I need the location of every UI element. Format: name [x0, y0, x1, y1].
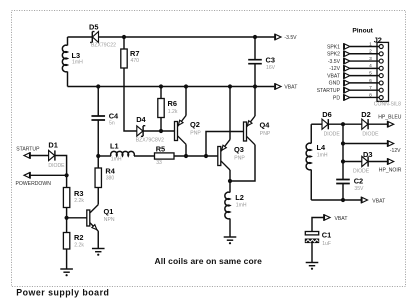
- svg-text:Power supply board: Power supply board: [16, 287, 109, 297]
- junction D3 tap: [341, 159, 345, 163]
- svg-text:VBAT: VBAT: [327, 73, 340, 79]
- wire L1 to R5: [134, 155, 155, 157]
- svg-text:-12V: -12V: [329, 66, 340, 72]
- inductor L3: [62, 37, 83, 87]
- diode D1: [48, 140, 65, 169]
- junction C3 / -3.5V rail: [253, 35, 257, 39]
- resistor R6: [158, 87, 178, 132]
- svg-text:PD: PD: [333, 95, 340, 101]
- inductor L4: [306, 124, 328, 200]
- svg-text:380: 380: [106, 175, 115, 181]
- wire D5 to -3.5V flag, node -3.5V: [98, 36, 274, 38]
- svg-text:-12V: -12V: [390, 148, 401, 154]
- svg-text:4: 4: [369, 63, 372, 69]
- svg-text:HP_BLEU: HP_BLEU: [378, 114, 402, 120]
- svg-text:D2: D2: [361, 110, 370, 119]
- pin 8 PD: [333, 92, 383, 101]
- svg-text:Q2: Q2: [190, 120, 200, 129]
- svg-text:R5: R5: [156, 144, 165, 153]
- diode D2: [361, 110, 379, 137]
- flag -12V: [388, 140, 402, 154]
- diode D6: [322, 110, 340, 137]
- svg-text:DIODE: DIODE: [353, 168, 370, 174]
- flag POWERDOWN: [16, 172, 52, 187]
- resistor R3: [63, 188, 84, 233]
- svg-text:35V: 35V: [354, 186, 364, 192]
- junction Q4 emitter / VBAT rail: [253, 84, 257, 88]
- junction Q3 emitter / VBAT rail: [228, 84, 232, 88]
- svg-text:C2: C2: [354, 176, 363, 185]
- svg-text:HP_NOIR: HP_NOIR: [379, 167, 402, 173]
- flag VBAT (C1): [324, 214, 348, 222]
- svg-text:R6: R6: [168, 99, 177, 108]
- wire R3/R2 node to Q1 base: [67, 217, 87, 219]
- svg-text:3: 3: [369, 56, 372, 62]
- svg-text:PNP: PNP: [260, 131, 271, 137]
- flag VBAT (right): [361, 197, 385, 205]
- svg-text:STARTUP: STARTUP: [317, 88, 341, 94]
- junction C4/L1/R4 node: [96, 154, 100, 158]
- svg-text:SPK1: SPK1: [327, 44, 340, 50]
- svg-text:-3.5V: -3.5V: [328, 59, 341, 65]
- flag STARTUP: [16, 146, 40, 159]
- zener diode D5: [89, 23, 116, 49]
- svg-text:R2: R2: [74, 233, 83, 242]
- svg-text:R3: R3: [74, 189, 83, 198]
- svg-text:33: 33: [156, 160, 162, 166]
- capacitor C1 (polarized): [305, 231, 331, 247]
- svg-text:SPK2: SPK2: [327, 52, 340, 58]
- svg-text:5: 5: [369, 71, 372, 77]
- resistor R5: [155, 144, 175, 166]
- svg-text:8: 8: [369, 92, 372, 98]
- svg-text:1mH: 1mH: [72, 60, 83, 66]
- svg-text:VBAT: VBAT: [284, 84, 297, 90]
- connector J2 CONN-SIL8: [374, 35, 401, 107]
- wire C1 to ground: [311, 243, 313, 263]
- svg-text:5n: 5n: [109, 120, 115, 126]
- capacitor C3: [248, 37, 275, 87]
- transistor Q3 PNP: [218, 87, 246, 182]
- pin 6 GND: [329, 78, 384, 87]
- pin 1 SPK1: [327, 41, 383, 50]
- svg-text:PNP: PNP: [234, 155, 245, 161]
- junction C2 / VBAT wire: [341, 198, 345, 202]
- pin 3 -3.5V: [328, 56, 383, 65]
- svg-text:R7: R7: [130, 49, 139, 58]
- svg-text:PNP: PNP: [190, 130, 201, 136]
- wire D4 to Q2 base: [143, 130, 174, 132]
- junction C4 / VBAT rail: [96, 84, 100, 88]
- ground (C1): [306, 263, 319, 270]
- svg-text:R4: R4: [105, 166, 115, 175]
- junction Q3/Q4 collectors / L2: [228, 179, 232, 183]
- pin 4 -12V: [329, 63, 383, 72]
- svg-text:DIODE: DIODE: [324, 132, 341, 138]
- junction Q1 base node: [65, 216, 69, 220]
- resistor R4: [95, 156, 116, 188]
- inductor L1: [110, 141, 134, 162]
- svg-text:16V: 16V: [266, 65, 276, 71]
- wire R5 to Q3 base: [174, 155, 218, 157]
- svg-text:NPN: NPN: [104, 217, 115, 223]
- wire node to Q4 base: [206, 132, 244, 157]
- svg-text:6: 6: [369, 78, 372, 84]
- svg-text:DIODE: DIODE: [362, 132, 379, 138]
- svg-text:CONN-SIL8: CONN-SIL8: [374, 102, 401, 108]
- svg-text:1mH: 1mH: [111, 157, 122, 163]
- wire D2 to HP_BLEU flag: [368, 123, 388, 125]
- svg-text:D5: D5: [89, 23, 98, 32]
- junction R6 / D4 node: [159, 129, 163, 133]
- resistor R2: [63, 233, 84, 270]
- svg-text:D1: D1: [48, 140, 57, 149]
- flag VBAT: [275, 83, 298, 90]
- svg-text:1: 1: [369, 41, 372, 47]
- wire D3 to HP_NOIR flag: [368, 161, 388, 163]
- wire D1 to R3: [55, 156, 67, 188]
- wire D6 to D2: [328, 123, 362, 125]
- svg-text:All coils are on same core: All coils are on same core: [155, 256, 263, 266]
- pin 5 VBAT: [327, 71, 383, 80]
- junction R7 / -3.5V rail: [122, 35, 126, 39]
- svg-text:C4: C4: [109, 111, 119, 120]
- svg-text:2.2k: 2.2k: [74, 198, 84, 204]
- junction -12V tap: [341, 141, 345, 145]
- zener diode D4: [136, 115, 164, 144]
- wire STARTUP to D1: [30, 155, 48, 157]
- wire to -12V flag: [343, 143, 388, 145]
- svg-text:C3: C3: [266, 56, 275, 65]
- junction D6/D2 node: [341, 122, 345, 126]
- wire L4 to D6: [311, 123, 322, 125]
- svg-text:L2: L2: [235, 193, 244, 202]
- svg-text:470: 470: [131, 58, 140, 64]
- svg-text:L4: L4: [317, 143, 327, 152]
- svg-text:D3: D3: [363, 150, 372, 159]
- svg-text:L1: L1: [110, 141, 119, 150]
- svg-text:POWERDOWN: POWERDOWN: [16, 181, 52, 187]
- wire POWERDOWN: [30, 174, 66, 176]
- svg-text:BZX79C22: BZX79C22: [91, 43, 116, 49]
- svg-text:2: 2: [369, 49, 372, 55]
- junction Q2 emitter / VBAT rail: [184, 84, 188, 88]
- transistor Q4 PNP: [230, 87, 271, 182]
- svg-text:Q1: Q1: [104, 207, 114, 216]
- junction POWERDOWN node: [65, 173, 69, 177]
- junction R6 / VBAT rail: [159, 84, 163, 88]
- transistor Q1 NPN: [87, 188, 115, 249]
- wire C4 node to L1: [98, 155, 111, 157]
- svg-text:D4: D4: [136, 115, 146, 124]
- wire to D3: [343, 161, 362, 163]
- svg-text:Q3: Q3: [234, 145, 244, 154]
- junction Q4 base / R5 node: [204, 154, 208, 158]
- wire VBAT to C1: [312, 218, 324, 232]
- flag HP_NOIR: [379, 158, 402, 173]
- svg-text:1.2k: 1.2k: [168, 109, 178, 115]
- svg-text:DIODE: DIODE: [48, 163, 65, 169]
- svg-text:1mH: 1mH: [317, 152, 328, 158]
- pin 2 SPK2: [327, 49, 383, 58]
- svg-text:GND: GND: [329, 81, 341, 87]
- svg-text:Q4: Q4: [260, 121, 271, 130]
- flag -3.5V: [275, 34, 297, 41]
- flag HP_BLEU: [378, 114, 402, 127]
- svg-text:VBAT: VBAT: [335, 216, 348, 222]
- svg-text:STARTUP: STARTUP: [16, 146, 40, 152]
- svg-text:VBAT: VBAT: [372, 198, 385, 204]
- inductor L2: [225, 181, 247, 237]
- wire center vertical: [342, 124, 344, 179]
- wire bottom to VBAT flag: [311, 199, 361, 201]
- diode D3: [353, 150, 372, 174]
- svg-text:BZX79C8V2: BZX79C8V2: [136, 138, 164, 144]
- junction Q2 collector / R5 node: [184, 154, 188, 158]
- wire L3 to D5: [68, 36, 93, 38]
- capacitor C4: [91, 87, 119, 157]
- pin 7 STARTUP: [317, 85, 384, 94]
- ground (Q1): [92, 249, 105, 256]
- svg-text:1mH: 1mH: [236, 202, 247, 208]
- svg-text:D6: D6: [322, 110, 331, 119]
- resistor R7: [121, 37, 140, 131]
- capacitor C2: [336, 176, 364, 200]
- svg-text:2.2k: 2.2k: [74, 243, 84, 249]
- svg-text:-3.5V: -3.5V: [284, 35, 297, 41]
- wire VBAT rail: [68, 86, 275, 88]
- svg-text:7: 7: [369, 85, 372, 91]
- ground (R2): [60, 269, 73, 276]
- svg-text:Pinout: Pinout: [352, 28, 373, 35]
- transistor Q2 PNP: [175, 87, 202, 157]
- ground (L2): [224, 237, 237, 244]
- svg-text:C1: C1: [322, 231, 331, 240]
- svg-text:1uF: 1uF: [322, 241, 331, 247]
